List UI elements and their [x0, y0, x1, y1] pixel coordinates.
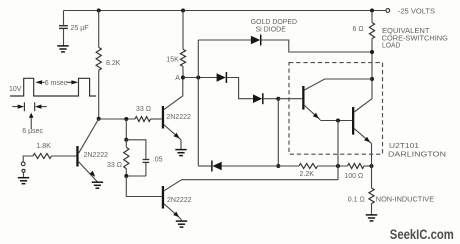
wire: 1.8K to Q2 base	[52, 155, 77, 157]
wire: 0.1 ohm bottom lead	[371, 204, 373, 215]
node A	[181, 76, 185, 80]
transistor U1a emitter	[304, 105, 320, 119]
wire: T3 emitter to ground	[180, 219, 183, 221]
dimension arrow right (6 msec)	[66, 80, 78, 84]
svg-text:A: A	[175, 75, 180, 82]
wire: cap top lead	[63, 11, 65, 25]
node: load/diode junction	[370, 50, 374, 54]
node: rail junction at 6-ohm load	[370, 9, 374, 13]
node: bias junction	[276, 97, 280, 101]
wire: A to diode row	[183, 77, 217, 79]
node: 2.2K/100 junction	[336, 164, 340, 168]
capacitor .05	[143, 160, 150, 163]
wire: 100 ohm right lead	[364, 165, 372, 167]
dashed box U2T101	[289, 63, 383, 155]
terminal: signal input	[21, 162, 25, 166]
node: damper top	[124, 138, 128, 142]
svg-text:8.2K: 8.2K	[106, 60, 121, 67]
wire: damper top link	[126, 140, 146, 159]
watermark SeekIC.com	[390, 227, 454, 242]
ground under 0.1 ohm	[366, 215, 377, 221]
svg-text:-25 VOLTS: -25 VOLTS	[398, 7, 435, 16]
label EQUIVALENT	[382, 27, 430, 35]
wire: U1b emitter drop	[371, 144, 373, 166]
svg-text:6 msec: 6 msec	[45, 80, 68, 87]
transistor U1b base bar	[352, 107, 354, 135]
svg-text:NON-INDUCTIVE: NON-INDUCTIVE	[376, 197, 435, 204]
wire: damper bottom link	[126, 175, 146, 177]
arrow into right tick	[35, 105, 47, 109]
wire: U1a emitter to U1b base	[320, 120, 352, 122]
svg-text:LOAD: LOAD	[382, 41, 400, 49]
transistor T3 collector	[164, 180, 182, 191]
transistor U1a collector	[304, 79, 371, 90]
resistor 33 ohm (base)	[135, 117, 151, 122]
wire: load bottom lead	[371, 39, 373, 99]
label 10V	[9, 86, 22, 93]
node: rail junction at 8.2K	[97, 9, 101, 13]
label 15K	[166, 57, 179, 64]
transistor T3 2N2222 base bar	[162, 186, 164, 209]
svg-text:25 µF: 25 µF	[71, 25, 89, 32]
label 100 ohm	[344, 173, 363, 180]
capacitor C1 25uF	[59, 26, 68, 29]
svg-text:6 µsec: 6 µsec	[22, 128, 43, 135]
label 6 usec	[22, 128, 43, 135]
svg-text:U2T101: U2T101	[389, 143, 419, 150]
transistor U1a base bar	[302, 86, 304, 110]
wire: 15K bottom lead	[182, 66, 184, 77]
label 25 uF	[71, 25, 89, 32]
label GOLD DOPED	[251, 19, 297, 26]
label 6 ohm	[353, 26, 364, 33]
transistor T1 emitter	[164, 125, 181, 140]
wire: D1 to D2 jog	[227, 78, 253, 99]
label DARLINGTON	[388, 151, 446, 158]
ground under T1	[175, 150, 186, 156]
terminal -25 VOLTS	[386, 9, 390, 13]
label A	[175, 75, 180, 82]
node: rail junction at 15K	[181, 9, 185, 13]
label Si DIODE	[256, 26, 287, 33]
diode D3 (points left)	[212, 161, 222, 172]
svg-text:2N2222: 2N2222	[84, 152, 109, 159]
label -25 VOLTS	[398, 7, 435, 16]
label 33 ohm (base)	[136, 106, 151, 113]
wire: damper to T3 base	[126, 176, 161, 197]
ground at input	[18, 178, 29, 184]
wire: 0.1 ohm top lead	[371, 166, 373, 188]
node: base drive junction	[336, 119, 340, 123]
resistor 33 ohm (vertical)	[124, 147, 129, 168]
transistor Q2 collector	[79, 119, 99, 153]
ground under T3	[176, 221, 187, 227]
node: 33ohm/.05 branch	[124, 117, 128, 121]
ground under Q2	[92, 182, 103, 188]
wire: 8.2K bottom lead	[98, 70, 100, 119]
wire: D2 to Q1 base	[264, 98, 279, 100]
wire: post to ground	[23, 172, 25, 177]
node: damper bottom	[124, 174, 128, 178]
ground under C1	[57, 46, 68, 52]
svg-text:6 Ω: 6 Ω	[353, 26, 364, 33]
wire: load top lead	[371, 11, 373, 23]
resistor 6 ohm load	[369, 23, 374, 39]
label 6 msec	[45, 80, 68, 87]
tick: pulse width left	[23, 102, 25, 111]
diode D1	[217, 72, 227, 83]
wire: 33 ohm vert bottom lead	[125, 169, 127, 176]
label LOAD	[382, 41, 400, 49]
wire: T3 collector run	[182, 179, 338, 181]
wire: T1 emitter to ground	[180, 140, 182, 150]
transistor U1b collector	[354, 99, 372, 112]
label 2N2222 (input)	[84, 152, 109, 159]
wire: gold diode feed	[198, 39, 251, 41]
label 0.1 ohm	[348, 197, 365, 204]
diode D2	[253, 93, 263, 104]
wire: D3 to 2.2K	[222, 165, 299, 167]
svg-text:2N2222: 2N2222	[167, 197, 192, 204]
transistor Q2 emitter	[79, 162, 98, 182]
svg-text:15K: 15K	[166, 57, 179, 64]
wire: input to 1.8K	[23, 156, 33, 162]
node: 8.2K / collector junction	[97, 117, 101, 121]
wire: 2.2K to 100 ohm	[318, 165, 348, 167]
label .05	[153, 157, 163, 164]
svg-text:10V: 10V	[9, 86, 22, 93]
svg-text:1.8K: 1.8K	[36, 143, 51, 150]
waveform: input pulse train	[10, 78, 96, 96]
resistor 1.8K	[33, 154, 52, 159]
wire: branch down	[125, 119, 127, 140]
svg-text:GOLD DOPED: GOLD DOPED	[251, 19, 297, 26]
wire: riser to gold diode	[197, 40, 199, 78]
svg-text:0.1 Ω: 0.1 Ω	[348, 197, 365, 204]
svg-text:100 Ω: 100 Ω	[344, 173, 363, 180]
dimension arrow left (6 msec)	[35, 80, 44, 84]
label 2.2K	[300, 171, 315, 178]
svg-text:Si DIODE: Si DIODE	[256, 26, 287, 33]
svg-text:SeekIC.com: SeekIC.com	[390, 227, 454, 242]
wire: cap bottom lead	[145, 163, 147, 176]
wire: 33 ohm vert top lead	[125, 140, 127, 148]
label NON-INDUCTIVE	[376, 197, 435, 204]
transistor T1 2N2222 base bar	[162, 106, 164, 129]
resistor 2.2K	[299, 164, 318, 169]
wire: 8.2K top lead	[98, 11, 100, 48]
transistor T3 emitter	[164, 204, 181, 219]
transistor T1 collector	[164, 78, 183, 110]
label 8.2K	[106, 60, 121, 67]
resistor 0.1 ohm	[369, 188, 374, 204]
arrow into left tick	[12, 105, 24, 109]
node: diode branch	[196, 76, 200, 80]
wire: top supply rail	[64, 10, 386, 12]
label U2T101	[389, 143, 419, 150]
label CORE-SWITCHING	[382, 34, 448, 42]
wire: lower row left	[198, 165, 211, 167]
transistor Q2 2N2222 base bar	[76, 146, 78, 167]
wire: 33 ohm to T1 base	[151, 118, 162, 120]
wire: base drive riser	[337, 121, 339, 180]
wire: 15K top lead	[182, 11, 184, 50]
wire: branch down to lower diode	[197, 78, 199, 167]
label 2N2222 (bottom)	[167, 197, 192, 204]
svg-text:DARLINGTON: DARLINGTON	[388, 151, 446, 158]
terminal: input ground post	[22, 169, 25, 172]
label 1.8K	[36, 143, 51, 150]
node: riser/2.2K junction	[276, 164, 280, 168]
svg-text:2N2222: 2N2222	[166, 114, 191, 121]
transistor U1b emitter	[354, 129, 371, 144]
node: emitter/100 junction	[370, 164, 374, 168]
wire: bias junction riser	[277, 99, 279, 166]
label 33 ohm (vertical)	[107, 162, 122, 169]
svg-text:2.2K: 2.2K	[300, 171, 315, 178]
resistor 100 ohm	[348, 164, 365, 169]
wire: into darlington base	[278, 98, 302, 100]
node: load/collector junction	[370, 77, 374, 81]
up arrow (6 usec)	[29, 113, 34, 129]
svg-text:33 Ω: 33 Ω	[107, 162, 122, 169]
wire: collector node to 33 ohm	[99, 118, 135, 120]
diode gold doped Si	[251, 35, 261, 46]
resistor 15K	[180, 49, 185, 66]
svg-text:.05: .05	[153, 157, 163, 164]
resistor 8.2K	[96, 47, 101, 70]
tick: pulse width right	[34, 102, 36, 111]
label 2N2222 (mid)	[166, 114, 191, 121]
svg-text:33 Ω: 33 Ω	[136, 106, 151, 113]
wire: gold diode to load node	[262, 40, 373, 52]
wire: cap bottom lead	[63, 29, 65, 46]
